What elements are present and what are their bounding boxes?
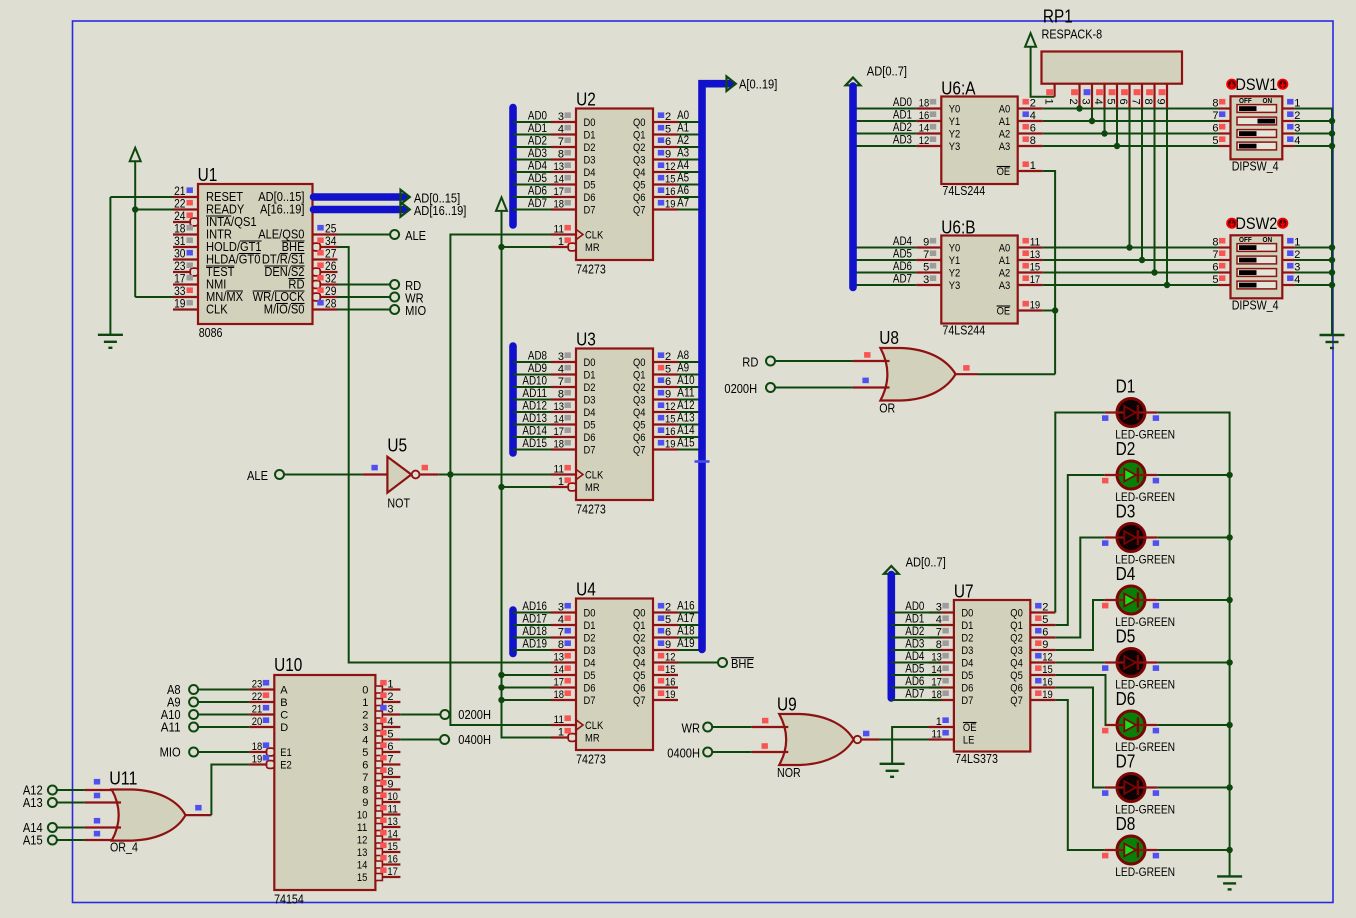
wire U5 output to CLK net [438, 474, 450, 476]
power symbol VCC above U1 [130, 148, 141, 162]
U4 pin Q0 (2) [653, 611, 678, 613]
terminal A10 to U10 [189, 710, 198, 719]
U10 pin D (20) [249, 726, 274, 728]
DSW1 switch elements [1237, 105, 1277, 113]
svg-text:D5: D5 [961, 670, 973, 682]
svg-text:Q4: Q4 [633, 407, 646, 419]
svg-text:Q2: Q2 [633, 142, 646, 154]
U5 output state square [422, 465, 428, 471]
U3 pin CLK (11) [551, 473, 576, 475]
svg-text:1: 1 [558, 236, 564, 248]
DIP switch DSW2 body [1231, 235, 1283, 298]
svg-text:Q0: Q0 [1010, 608, 1023, 620]
U2 pin D0 (3) [551, 121, 576, 123]
svg-text:ALE: ALE [247, 468, 268, 483]
U3 pin D7 (18) [551, 448, 576, 450]
svg-text:A14: A14 [677, 425, 695, 437]
U7 pin D5 (14) [929, 674, 954, 676]
svg-text:2: 2 [665, 601, 671, 613]
IC U4 74273 body [576, 599, 653, 751]
wire U7 Q5 to D6 [1055, 675, 1106, 725]
U10 pin 9 (10) [375, 799, 382, 806]
svg-text:U11: U11 [109, 769, 137, 789]
svg-text:74LS373: 74LS373 [955, 752, 998, 766]
svg-text:D3: D3 [584, 645, 596, 657]
wire U7 Q7 to D8 [1055, 700, 1104, 850]
U1 pin NMI (17) [173, 283, 198, 285]
wires U3 outputs A8-A15 to main bus [678, 361, 700, 363]
svg-text:15: 15 [1030, 261, 1041, 273]
svg-text:AD12: AD12 [522, 401, 547, 413]
junction at READY [132, 206, 138, 212]
DSW1 pin pin 7 [1219, 120, 1231, 122]
svg-text:AD18: AD18 [522, 626, 547, 638]
U3 pin D5 (14) [551, 423, 576, 425]
wire U10 output4 to 0400H terminal [401, 739, 441, 741]
svg-text:9: 9 [665, 639, 671, 651]
U7 pin LE (11) [929, 738, 954, 740]
svg-text:4: 4 [558, 123, 564, 135]
svg-text:D2: D2 [1116, 439, 1136, 459]
svg-text:A13: A13 [23, 795, 43, 810]
svg-text:4: 4 [362, 735, 368, 747]
svg-text:Q5: Q5 [633, 180, 646, 192]
svg-text:AD7: AD7 [893, 274, 912, 286]
U7 pin Q1 (5) [1030, 624, 1055, 626]
U10 pin E1 (18) [249, 751, 266, 753]
svg-text:16: 16 [665, 186, 676, 198]
U6:A pin Y1 (16) [916, 120, 941, 122]
wire RP1 pin 2 to row [1079, 107, 1081, 109]
svg-text:AD5: AD5 [528, 173, 547, 185]
U4 pin D4 (13) [551, 661, 576, 663]
DSW2 switch elements [1237, 244, 1277, 252]
svg-text:17: 17 [554, 426, 565, 438]
terminal WR input to U9 [703, 723, 712, 732]
svg-text:Q4: Q4 [1010, 658, 1023, 670]
svg-text:17: 17 [554, 676, 565, 688]
svg-text:11: 11 [1030, 236, 1041, 248]
U10 pin 5 (6) [375, 749, 382, 756]
svg-text:7: 7 [558, 376, 564, 388]
U11 output state square [195, 805, 201, 811]
svg-text:B: B [280, 697, 287, 709]
svg-text:5: 5 [1042, 614, 1048, 626]
U8 state squares [864, 352, 870, 358]
D5 state squares [1102, 665, 1108, 671]
svg-text:AD15: AD15 [522, 438, 547, 450]
U6:A pin A3 (8) [1018, 145, 1043, 147]
U10 pin 4 (5) [375, 736, 382, 743]
svg-text:D6: D6 [584, 432, 596, 444]
svg-text:11: 11 [387, 803, 398, 815]
svg-text:3: 3 [387, 703, 393, 715]
svg-text:12: 12 [357, 835, 368, 847]
svg-text:17: 17 [387, 866, 398, 878]
svg-text:12: 12 [1042, 651, 1053, 663]
U1 pin CLK (19) [173, 308, 198, 310]
svg-text:5: 5 [665, 614, 671, 626]
U4 pin CLK (11) [551, 724, 576, 726]
LED D8 LED-GREEN [1117, 836, 1145, 864]
U7 pin Q2 (6) [1030, 636, 1055, 638]
svg-text:14: 14 [357, 860, 368, 872]
wire U7 Q2 to D3 [1055, 538, 1104, 638]
svg-text:7: 7 [1212, 249, 1218, 261]
junction RP1 pin 9 [1164, 282, 1170, 288]
DSW1 actuator buttons [1226, 79, 1237, 90]
U4 pin Q5 (15) [653, 674, 678, 676]
svg-text:6: 6 [362, 760, 368, 772]
svg-text:MR: MR [585, 733, 600, 745]
bus AD[0..7] stub near U6 [846, 78, 861, 86]
svg-text:Y1: Y1 [949, 255, 961, 267]
svg-text:AD4: AD4 [528, 161, 548, 173]
terminal ALE at U1 [390, 230, 399, 239]
svg-text:RD: RD [742, 354, 758, 369]
svg-text:AD[0..7]: AD[0..7] [867, 64, 907, 79]
U11 input state squares [94, 779, 100, 785]
U3 pin MR (1) [551, 486, 568, 488]
svg-text:2: 2 [1030, 97, 1036, 109]
U10 pin 8 (9) [375, 786, 382, 793]
junction RP1 pin 5 [1114, 143, 1120, 149]
svg-text:AD4: AD4 [905, 651, 925, 663]
svg-text:D3: D3 [961, 645, 973, 657]
svg-text:U6:B: U6:B [941, 218, 975, 238]
svg-text:0400H: 0400H [667, 745, 700, 760]
DSW1 pin pin 1 [1282, 107, 1294, 109]
svg-text:AD17: AD17 [522, 614, 547, 626]
svg-text:AD0: AD0 [893, 97, 912, 109]
resistor pack RP1 RESPACK-8 body [1042, 52, 1183, 84]
terminal 0400H input to U9 [703, 748, 712, 757]
svg-text:U9: U9 [777, 695, 797, 715]
svg-text:74273: 74273 [576, 262, 606, 276]
U4 pin D3 (8) [551, 649, 576, 651]
svg-text:D7: D7 [584, 445, 596, 457]
U2 pin Q4 (12) [653, 171, 678, 173]
svg-text:LE: LE [963, 735, 975, 747]
svg-text:13: 13 [554, 401, 565, 413]
U10 pin 11 (13) [375, 824, 382, 831]
svg-text:A15: A15 [23, 832, 43, 847]
svg-text:MR: MR [585, 242, 600, 254]
svg-text:OFF: OFF [1239, 235, 1252, 244]
svg-text:A1: A1 [999, 116, 1011, 128]
svg-text:AD5: AD5 [905, 664, 924, 676]
wire U10 output2 to 0200H terminal [401, 714, 441, 716]
svg-text:Q7: Q7 [633, 695, 646, 707]
svg-text:19: 19 [665, 438, 676, 450]
U6:B pin A2 (15) [1018, 271, 1043, 273]
svg-text:A18: A18 [677, 626, 695, 638]
svg-text:15: 15 [665, 173, 676, 185]
svg-text:D7: D7 [1116, 752, 1136, 772]
svg-text:D7: D7 [584, 695, 596, 707]
svg-text:Y2: Y2 [949, 129, 961, 141]
D6 state squares [1102, 728, 1108, 734]
wire to U4 D5 [502, 674, 552, 676]
wire D4 cathode to common [1157, 599, 1229, 601]
svg-text:AD3: AD3 [905, 639, 924, 651]
U5 input state square [371, 465, 377, 471]
svg-text:Y1: Y1 [949, 116, 961, 128]
U6:A pin OE (1) [1018, 170, 1043, 172]
svg-text:D6: D6 [1116, 689, 1136, 709]
U11 output pin stub [186, 814, 212, 816]
svg-text:Q0: Q0 [633, 608, 646, 620]
svg-text:Q4: Q4 [633, 167, 646, 179]
svg-text:AD13: AD13 [522, 413, 547, 425]
svg-text:AD0: AD0 [528, 111, 547, 123]
svg-text:19: 19 [252, 753, 263, 765]
bus terminal arrow A[0..19] [727, 76, 736, 91]
U10 pin 7 (8) [375, 774, 382, 781]
svg-text:U1: U1 [198, 165, 218, 185]
U1 pin ALE/QS0 (25) [313, 233, 338, 235]
svg-text:74LS244: 74LS244 [942, 323, 985, 337]
svg-text:Q5: Q5 [1010, 670, 1023, 682]
U10 pin 12 (14) [375, 836, 382, 843]
LED D2 LED-GREEN [1117, 461, 1145, 489]
svg-text:1: 1 [558, 726, 564, 738]
svg-text:14: 14 [554, 413, 565, 425]
wire U6:B OE to OE net [1043, 310, 1055, 312]
svg-text:WR: WR [682, 720, 701, 735]
U3 pin D4 (13) [551, 411, 576, 413]
U2 pin Q0 (2) [653, 121, 678, 123]
svg-text:1: 1 [558, 476, 564, 488]
svg-text:6: 6 [665, 136, 671, 148]
svg-text:A4: A4 [677, 160, 690, 172]
svg-text:5: 5 [1212, 135, 1218, 147]
wires U6:A outputs to DSW1 [1043, 108, 1219, 110]
svg-text:ON: ON [1263, 235, 1273, 244]
LED D6 LED-GREEN [1117, 711, 1145, 739]
wire RP1 pin 7 down to U6:B row [1141, 108, 1143, 260]
bus stub left of U2 [509, 108, 517, 226]
svg-text:4: 4 [1092, 99, 1104, 105]
svg-text:A17: A17 [677, 613, 695, 625]
U4 pin Q1 (5) [653, 624, 678, 626]
DSW2 pin pin 4 [1282, 284, 1294, 286]
svg-text:A13: A13 [677, 413, 695, 425]
U10 pin 2 (3) [375, 711, 382, 718]
U6:B pin Y1 (7) [916, 259, 941, 261]
U1 pin DT/R/S1 (27) [313, 258, 338, 260]
U4 pin D2 (7) [551, 636, 576, 638]
U6:B pin Y2 (5) [916, 271, 941, 273]
U4 pin Q3 (9) [653, 649, 678, 651]
power symbol for RP1 [1025, 33, 1036, 47]
svg-text:D1: D1 [584, 620, 596, 632]
main address bus A[0..19] [702, 84, 731, 650]
RP1 pin 2 [1078, 84, 1080, 109]
svg-text:A2: A2 [999, 129, 1011, 141]
svg-text:14: 14 [387, 828, 398, 840]
svg-text:16: 16 [919, 110, 930, 122]
svg-text:8086: 8086 [199, 326, 223, 340]
svg-text:19: 19 [1030, 299, 1041, 311]
svg-text:23: 23 [252, 678, 263, 690]
svg-text:6: 6 [1212, 122, 1218, 134]
U1 pin RD (32) [320, 283, 337, 285]
gate U8 OR body [880, 348, 955, 401]
wire ALE terminal to U5 [284, 474, 363, 476]
svg-text:A19: A19 [677, 638, 695, 650]
svg-text:AD6: AD6 [893, 261, 912, 273]
svg-text:A1: A1 [677, 123, 689, 135]
U2 pin D4 (13) [551, 171, 576, 173]
svg-text:19: 19 [665, 689, 676, 701]
IC U10 74154 body [274, 675, 375, 890]
wire RP1 pin 8 down to U6:B row [1154, 108, 1156, 272]
bus stub left of U3 [509, 346, 517, 453]
svg-text:74273: 74273 [576, 502, 606, 516]
svg-text:MIO: MIO [160, 744, 181, 759]
U2 pin Q2 (6) [653, 146, 678, 148]
wire U1 MIO to terminal [338, 309, 391, 311]
svg-text:AD3: AD3 [893, 135, 912, 147]
terminal A11 to U10 [189, 723, 198, 732]
U10 pin A (23) [249, 688, 274, 690]
U6:A pin Y0 (18) [916, 107, 941, 109]
svg-text:OE: OE [997, 166, 1011, 178]
svg-text:18: 18 [554, 689, 565, 701]
U1 pin INTA/QS1 (24) [173, 221, 190, 223]
svg-text:OE: OE [963, 722, 977, 734]
gate U11 OR_4 body [112, 790, 186, 841]
svg-text:7: 7 [558, 136, 564, 148]
svg-text:MIO: MIO [405, 303, 426, 318]
U8 input pin stubs [853, 360, 890, 362]
D1 state squares [1102, 415, 1108, 421]
wire U7 OE to ground [892, 727, 941, 764]
junction RP1 pin 4 [1101, 130, 1107, 136]
svg-text:8: 8 [362, 785, 368, 797]
svg-text:A10: A10 [677, 375, 695, 387]
RP1 pin 8 [1153, 84, 1155, 109]
svg-text:A[0..19]: A[0..19] [739, 76, 777, 91]
U6:A pin A0 (2) [1018, 107, 1043, 109]
U2 pin Q1 (5) [653, 133, 678, 135]
svg-text:2: 2 [665, 351, 671, 363]
svg-text:DSW2: DSW2 [1235, 214, 1277, 233]
svg-text:AD2: AD2 [528, 136, 547, 148]
svg-text:CLK: CLK [585, 470, 604, 482]
terminal WR [390, 293, 399, 302]
svg-text:8: 8 [558, 639, 564, 651]
svg-text:D5: D5 [584, 420, 596, 432]
IC U3 74273 body [576, 349, 653, 501]
svg-text:6: 6 [387, 741, 393, 753]
U4 pin D1 (4) [551, 624, 576, 626]
svg-text:A11: A11 [677, 388, 695, 400]
IC U2 74273 body [576, 109, 653, 261]
svg-text:74273: 74273 [576, 752, 606, 766]
svg-text:15: 15 [387, 841, 398, 853]
DSW1 pin pin 8 [1219, 107, 1231, 109]
U3 pin Q4 (12) [653, 411, 678, 413]
terminal MIO to U10 E1 [189, 748, 198, 757]
junction RP1 pin 8 [1151, 269, 1157, 275]
svg-text:14: 14 [919, 122, 930, 134]
svg-text:13: 13 [387, 816, 398, 828]
svg-text:C: C [280, 710, 288, 722]
DSW2 pin pin 3 [1282, 271, 1294, 273]
svg-text:74154: 74154 [274, 893, 304, 907]
svg-text:E2: E2 [280, 760, 292, 772]
terminal BHE [718, 658, 727, 667]
svg-text:D0: D0 [584, 117, 596, 129]
U1 pin M/IO/S0 (28) [313, 308, 338, 310]
svg-text:5: 5 [1105, 99, 1117, 105]
svg-text:Q1: Q1 [633, 130, 646, 142]
U1 pin BHE (34) [320, 246, 337, 248]
svg-text:AD6: AD6 [905, 676, 924, 688]
svg-text:U3: U3 [576, 330, 596, 350]
svg-text:12: 12 [919, 135, 930, 147]
svg-text:Q6: Q6 [633, 192, 646, 204]
svg-text:Y0: Y0 [949, 104, 961, 116]
svg-text:Y3: Y3 [949, 141, 961, 153]
svg-text:22: 22 [252, 691, 263, 703]
svg-text:Y0: Y0 [949, 243, 961, 255]
terminal A8 to U10 [189, 685, 198, 694]
svg-text:4: 4 [387, 716, 393, 728]
svg-text:U7: U7 [954, 582, 974, 602]
D8 state squares [1102, 853, 1108, 859]
svg-text:A9: A9 [677, 363, 689, 375]
svg-text:Q3: Q3 [633, 395, 646, 407]
U7 pin Q4 (12) [1030, 661, 1055, 663]
svg-text:D0: D0 [961, 608, 973, 620]
LED D3 LED-GREEN [1117, 524, 1145, 552]
svg-text:12: 12 [665, 401, 676, 413]
ground symbol DIP switch common [1320, 334, 1345, 336]
svg-text:ON: ON [1263, 96, 1273, 105]
svg-text:3: 3 [923, 274, 929, 286]
wire U6:A OE down to U6:B OE and U8 output [1043, 171, 1055, 374]
svg-text:Q0: Q0 [633, 357, 646, 369]
ground symbol below U1 [98, 334, 123, 336]
U1 pin TEST (23) [173, 271, 190, 273]
svg-text:AD0: AD0 [905, 601, 924, 613]
wire U1 RD to terminal [338, 284, 391, 286]
svg-text:8: 8 [1030, 135, 1036, 147]
svg-text:D6: D6 [584, 683, 596, 695]
svg-text:3: 3 [558, 351, 564, 363]
bus AD[0..15] from U1 [314, 193, 405, 201]
svg-text:Q1: Q1 [633, 370, 646, 382]
svg-text:6: 6 [665, 376, 671, 388]
svg-text:D7: D7 [961, 695, 973, 707]
wire RESET to ground [110, 196, 173, 198]
svg-text:18: 18 [252, 741, 263, 753]
U6:A input wires from AD bus [853, 108, 916, 110]
svg-text:10: 10 [357, 810, 368, 822]
svg-text:7: 7 [362, 772, 368, 784]
svg-text:AD[0..7]: AD[0..7] [906, 554, 946, 569]
ground symbol LED common [1217, 875, 1242, 877]
terminal ALE input to U5 [275, 470, 284, 479]
svg-text:19: 19 [1042, 689, 1053, 701]
svg-text:6: 6 [1117, 99, 1129, 105]
svg-text:11: 11 [554, 714, 565, 726]
svg-text:Q4: Q4 [633, 658, 646, 670]
svg-text:D4: D4 [584, 407, 596, 419]
